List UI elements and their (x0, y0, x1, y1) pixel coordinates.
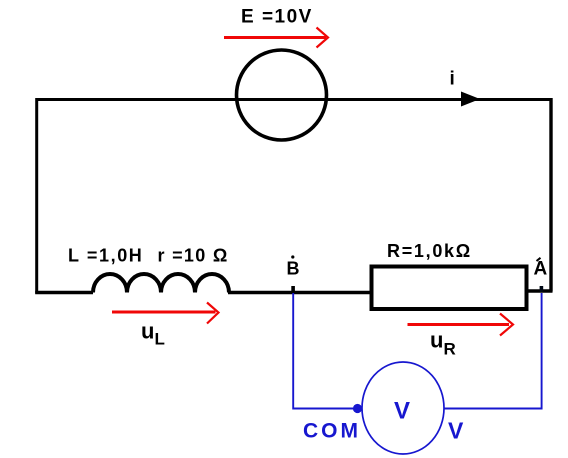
voltage source E (circle) (237, 50, 327, 140)
wire bottom right (resistor to right corner through node A) (527, 289, 553, 292)
node A (tick + label) (540, 286, 544, 292)
wire bottom left (corner to inductor) (35, 291, 93, 294)
inductor L (4 humps) (93, 274, 229, 293)
resistor R (rectangle) (372, 267, 527, 310)
arrow E (red, open head) (224, 28, 328, 48)
svg-text:r =10 Ω: r =10 Ω (158, 246, 229, 266)
svg-text:i: i (450, 69, 455, 90)
arrowhead i (filled, on top wire) (461, 92, 480, 107)
voltmeter V (blue circle) (362, 362, 444, 454)
svg-text:B: B (287, 259, 300, 279)
svg-text:R=1,0kΩ: R=1,0kΩ (387, 241, 472, 261)
svg-text:V: V (448, 418, 464, 444)
svg-text:u: u (141, 319, 154, 344)
svg-text:L: L (155, 330, 165, 349)
node B (tick + label) (291, 286, 295, 292)
wire right vertical (549, 98, 552, 292)
svg-text:E =10V: E =10V (241, 7, 313, 28)
svg-text:V: V (394, 398, 410, 425)
junction dot at COM terminal (353, 404, 362, 413)
svg-text:u: u (430, 328, 443, 353)
blue wire from node B down and right to voltmeter COM (293, 293, 354, 409)
wire bottom middle (inductor to resistor through node B) (228, 291, 371, 294)
svg-text:R: R (444, 340, 456, 359)
blue wire from voltmeter right to node A (444, 293, 542, 409)
svg-text:COM: COM (303, 420, 361, 443)
arrow uR (red, open head) (408, 314, 514, 336)
arrow uL (red, open head) (112, 303, 219, 324)
svg-text:A: A (534, 259, 548, 280)
svg-text:L =1,0H: L =1,0H (68, 246, 143, 266)
wire top (left corner to right corner through source) (36, 98, 552, 101)
wire left vertical (35, 98, 38, 294)
